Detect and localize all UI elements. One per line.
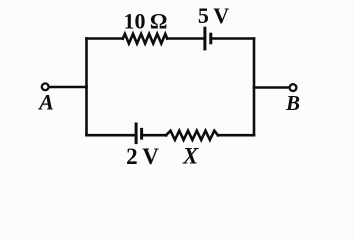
- wire right rail: [253, 39, 256, 136]
- wire top-right segment: [212, 37, 254, 40]
- terminal B: [290, 84, 297, 91]
- svg-text:10 Ω: 10 Ω: [123, 9, 167, 34]
- battery V2 2 V cell: [136, 124, 142, 143]
- svg-text:B: B: [285, 91, 300, 115]
- svg-text:A: A: [37, 90, 54, 115]
- wire between R1 and battery V1: [167, 37, 203, 40]
- wire between battery V2 and resistor X: [143, 134, 166, 137]
- svg-text:5 V: 5 V: [198, 3, 229, 28]
- wire bottom-right segment: [218, 134, 254, 137]
- wire terminal A lead: [49, 86, 87, 89]
- wire left rail: [85, 39, 88, 136]
- wire terminal B lead: [254, 86, 289, 89]
- wire bottom-left segment: [87, 134, 135, 137]
- battery V1 5 V cell: [205, 28, 211, 49]
- terminal A: [42, 83, 49, 90]
- svg-text:X: X: [182, 144, 199, 169]
- resistor X: [166, 131, 218, 140]
- svg-text:2 V: 2 V: [126, 144, 159, 169]
- wire top-left segment: [87, 37, 123, 40]
- resistor R1 10 ohm: [123, 34, 167, 44]
